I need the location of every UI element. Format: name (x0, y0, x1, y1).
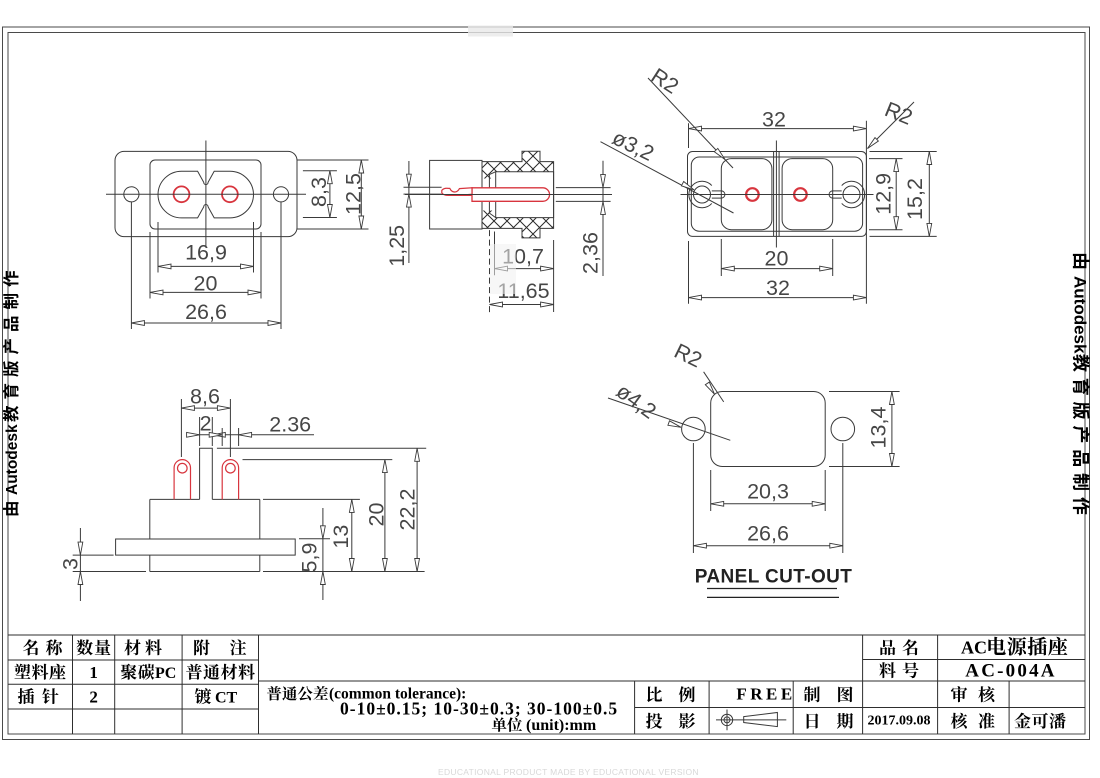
section view rear housing block (430, 160, 482, 229)
rear view pin right (red) (794, 188, 807, 201)
dimension 13,4 (829, 391, 900, 393)
front view horizontal centerline (106, 193, 306, 195)
svg-text:PC: PC (155, 665, 176, 682)
svg-text:AC: AC (961, 637, 987, 657)
svg-text:1,25: 1,25 (385, 225, 409, 267)
extension lines right of side view (217, 447, 426, 449)
svg-text:20: 20 (194, 271, 218, 295)
svg-text:20,3: 20,3 (747, 479, 789, 503)
title block grid (8, 634, 1085, 636)
dimension 20 (front) (150, 291, 261, 293)
dimension 2 (199, 417, 201, 446)
leader R2 top-left (648, 78, 733, 168)
side view flange plate (116, 539, 296, 555)
svg-text:26,6: 26,6 (185, 300, 227, 324)
side view pin right (red) (222, 460, 238, 500)
part name cells (880, 640, 895, 656)
svg-text:20: 20 (365, 503, 389, 527)
dimension 3 (79, 528, 81, 601)
rear view pin left (red) (746, 188, 759, 201)
faint artifacts (468, 26, 513, 37)
svg-text:5,9: 5,9 (298, 543, 322, 573)
front view pin hole left (red) (174, 186, 190, 202)
svg-text:2: 2 (200, 412, 212, 436)
dimension 12,5 (360, 160, 362, 229)
dimension 20 (rear) (720, 239, 722, 276)
front view vertical centerline (205, 141, 207, 248)
leader R2 (cut-out) (704, 372, 724, 402)
extension lines right of front view (297, 159, 369, 161)
watermark left: Autodesk education (3, 271, 21, 515)
watermark right: Autodesk education (1071, 254, 1091, 514)
hidden extension line (dashed) (489, 230, 491, 315)
section view centerline (405, 194, 612, 196)
dimension 2.36 (221, 428, 223, 446)
dimension 12,9 (869, 158, 903, 160)
svg-text:Autodesk: Autodesk (1071, 276, 1090, 354)
svg-text:EDUCATIONAL PRODUCT MADE BY ED: EDUCATIONAL PRODUCT MADE BY EDUCATIONAL … (438, 767, 699, 777)
svg-text:1: 1 (89, 663, 98, 682)
rear view center divider (773, 152, 775, 237)
svg-text:8,6: 8,6 (190, 384, 220, 408)
extension lines below front view (130, 202, 132, 329)
section view entry slot (488, 175, 490, 214)
panel cut-out hole right (831, 417, 855, 441)
svg-text:2: 2 (89, 687, 98, 706)
front view pin hole right (red) (222, 186, 238, 202)
dimension 1,25 (404, 186, 442, 188)
side view center boss (200, 448, 213, 499)
dimension 20 (side) (384, 460, 386, 572)
scale / projection cells (647, 686, 662, 702)
svg-text:2017.09.08: 2017.09.08 (868, 714, 931, 729)
dimension 11,65 (490, 304, 554, 306)
dimension 26,6 (front) (131, 322, 281, 324)
rear view inner wall (691, 157, 862, 231)
extension lines left of side view (73, 554, 114, 556)
side view lower body (149, 555, 151, 571)
section view hatched flange outline (482, 151, 554, 238)
side view body top edge (150, 498, 200, 500)
front view mounting hole right (273, 187, 288, 202)
svg-text:15,2: 15,2 (903, 178, 927, 220)
svg-text:32: 32 (762, 108, 786, 132)
dimension 22,2 (416, 448, 418, 571)
dimension 5,9 (322, 508, 324, 600)
front view mounting hole left (124, 187, 139, 202)
dimension 20,3 (710, 470, 712, 511)
dimension 32 top (688, 123, 690, 148)
dimension 13 (351, 499, 353, 571)
dimension 8,3 (329, 171, 331, 218)
side view body sides (149, 499, 151, 539)
contact pin (red, section) (472, 188, 550, 202)
rear view outer flange (688, 152, 867, 237)
third-angle projection symbol (721, 714, 732, 725)
svg-text:20: 20 (765, 246, 789, 270)
section view cavity (496, 172, 554, 218)
leader diameter 3,2 (601, 142, 734, 213)
dimension 8,6 (180, 399, 182, 457)
rear view right screw boss (843, 186, 860, 203)
svg-text:2,36: 2,36 (579, 232, 603, 274)
dimension 26,6 (cut-out) (692, 443, 694, 553)
dimension 32 bottom (688, 241, 690, 304)
rear view vertical centerline (775, 141, 777, 248)
svg-text:3: 3 (59, 558, 83, 570)
row: plastic base (14, 664, 65, 680)
svg-text:2.36: 2.36 (269, 413, 311, 437)
dimension 10,7 (495, 268, 554, 270)
svg-text:FREE: FREE (736, 685, 795, 704)
svg-text:PANEL CUT-OUT: PANEL CUT-OUT (695, 567, 853, 588)
svg-text:AC-004A: AC-004A (965, 661, 1056, 682)
tolerance note (267, 686, 328, 701)
rear view left screw boss (694, 186, 711, 203)
svg-text:26,6: 26,6 (747, 521, 789, 545)
svg-text:32: 32 (766, 276, 790, 300)
svg-text:22,2: 22,2 (396, 489, 420, 531)
dimension 2,36 (section) (556, 187, 611, 189)
svg-text:8,3: 8,3 (307, 177, 331, 207)
front view outer flange (115, 151, 297, 236)
side view pin left (red) (174, 460, 190, 500)
centerline over pin (430, 194, 556, 196)
svg-text:0-10±0.15; 10-30±0.3; 30-100: 0-10±0.15; 10-30±0.3; 30-100±0.5 (340, 699, 618, 719)
svg-text:Autodesk: Autodesk (4, 424, 21, 495)
svg-text:16,9: 16,9 (185, 241, 227, 265)
rear view right chamber (782, 159, 833, 230)
svg-text:12,5: 12,5 (342, 173, 366, 215)
svg-text:13,4: 13,4 (867, 407, 891, 449)
title block headers row (23, 639, 38, 655)
contact pin crimp tail (red) (442, 188, 472, 196)
rear view left chamber (721, 159, 772, 230)
leader diameter 4,2 (608, 398, 730, 440)
svg-text:(unit):mm: (unit):mm (526, 717, 597, 734)
panel cut-out hole left (682, 417, 706, 441)
front view inner recess (150, 160, 261, 229)
leader R2 top-right (868, 102, 915, 149)
svg-text:13: 13 (329, 525, 353, 549)
rear view horizontal centerline (681, 194, 874, 196)
svg-text:CT: CT (215, 689, 238, 706)
dimension 16,9 (158, 265, 254, 267)
dimension 15,2 (870, 151, 937, 153)
panel cut-out rectangle (711, 392, 826, 467)
front view C8 socket opening (158, 171, 254, 218)
svg-text:12,9: 12,9 (872, 173, 896, 215)
row: pins (18, 688, 34, 704)
